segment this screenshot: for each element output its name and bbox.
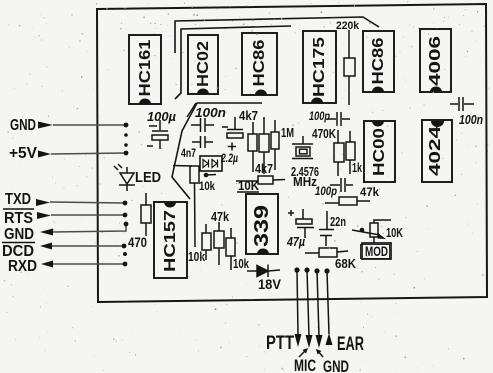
svg-text:100µ: 100µ xyxy=(147,109,176,124)
svg-text:RTS: RTS xyxy=(4,210,33,227)
svg-text:RXD: RXD xyxy=(8,258,37,275)
svg-text:1k: 1k xyxy=(352,161,362,175)
svg-text:4006: 4006 xyxy=(427,36,444,86)
svg-text:4n7: 4n7 xyxy=(181,148,196,160)
svg-text:47µ: 47µ xyxy=(286,234,305,249)
svg-text:EAR: EAR xyxy=(337,334,364,355)
svg-text:68K: 68K xyxy=(335,256,357,271)
svg-text:MIC: MIC xyxy=(294,356,316,373)
svg-text:HC157: HC157 xyxy=(162,210,179,272)
svg-text:HC00: HC00 xyxy=(371,128,388,176)
svg-text:10K: 10K xyxy=(386,226,403,240)
svg-text:22n: 22n xyxy=(330,215,346,229)
svg-text:10k: 10k xyxy=(233,257,249,271)
svg-text:4k7: 4k7 xyxy=(255,162,273,176)
svg-text:GND: GND xyxy=(323,357,349,373)
svg-text:10k: 10k xyxy=(199,179,215,193)
svg-text:TXD: TXD xyxy=(5,191,31,208)
svg-text:LED: LED xyxy=(135,169,161,186)
svg-text:GND: GND xyxy=(10,117,36,134)
svg-text:339: 339 xyxy=(251,205,273,247)
svg-text:1M: 1M xyxy=(281,125,294,140)
svg-text:PTT: PTT xyxy=(266,333,294,354)
svg-text:+5V: +5V xyxy=(9,145,37,162)
svg-text:47k: 47k xyxy=(360,185,379,199)
svg-text:100p: 100p xyxy=(309,109,330,123)
svg-text:4k7: 4k7 xyxy=(239,109,258,123)
svg-text:4024: 4024 xyxy=(427,126,444,176)
svg-text:470: 470 xyxy=(128,234,147,250)
svg-text:HC175: HC175 xyxy=(311,37,328,97)
svg-text:GND: GND xyxy=(4,226,34,243)
svg-text:HC02: HC02 xyxy=(195,41,212,87)
svg-text:HC86: HC86 xyxy=(370,37,387,84)
svg-text:47k: 47k xyxy=(211,209,230,224)
svg-text:220k: 220k xyxy=(336,20,360,32)
svg-text:HC161: HC161 xyxy=(137,39,154,96)
svg-text:18V: 18V xyxy=(258,276,282,292)
svg-text:HC86: HC86 xyxy=(251,39,268,86)
svg-text:MOD: MOD xyxy=(365,243,388,259)
svg-text:470K: 470K xyxy=(312,127,336,141)
svg-text:MHz: MHz xyxy=(293,174,317,189)
svg-text:2.2µ: 2.2µ xyxy=(220,151,238,165)
svg-text:10K: 10K xyxy=(238,179,259,193)
svg-text:100n: 100n xyxy=(459,113,483,127)
svg-text:100n: 100n xyxy=(195,105,226,120)
svg-text:100p: 100p xyxy=(315,184,337,198)
